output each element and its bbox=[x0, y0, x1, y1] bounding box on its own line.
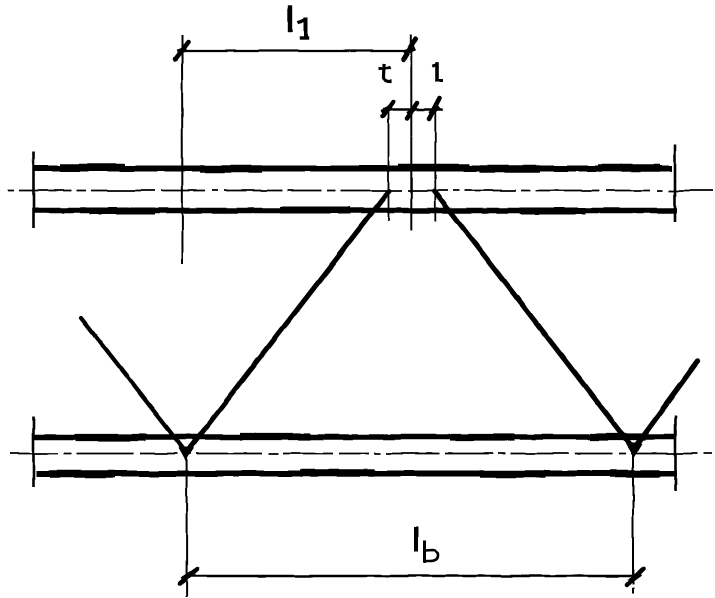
top chord right end tick bbox=[674, 144, 677, 222]
left outer diagonal member bbox=[81, 318, 186, 452]
t right extension line bbox=[434, 107, 436, 221]
t left arrowhead bbox=[382, 102, 393, 116]
top chord left end tick bbox=[32, 152, 35, 228]
left main diagonal member bbox=[187, 191, 389, 452]
dimension line lb bbox=[190, 575, 633, 577]
lb left arrowhead bbox=[180, 569, 197, 584]
extension line below left bottom joint bbox=[186, 455, 188, 597]
label t left bbox=[380, 65, 390, 82]
label l1 bbox=[290, 8, 307, 39]
top chord centerline bbox=[8, 190, 713, 192]
right outer diagonal member bbox=[634, 361, 699, 449]
lb right arrowhead bbox=[627, 569, 643, 585]
bottom left joint blob bbox=[181, 447, 192, 456]
t middle arrowhead bbox=[407, 103, 417, 118]
central extension line at x=411 bbox=[410, 34, 412, 230]
label lb bbox=[416, 529, 438, 561]
bottom chord bottom line bbox=[36, 473, 677, 474]
l1 right arrowhead bbox=[403, 38, 416, 60]
t right arrowhead bbox=[429, 98, 440, 119]
top chord top line bbox=[34, 168, 672, 170]
extension line below right bottom joint bbox=[632, 452, 634, 594]
bottom right joint blob bbox=[628, 443, 640, 453]
top chord bottom line bbox=[34, 210, 677, 211]
right main diagonal member bbox=[435, 191, 634, 449]
label t right bbox=[434, 64, 442, 80]
dimension line t (small) bbox=[383, 108, 443, 110]
dimension line l1 bbox=[179, 50, 410, 52]
bottom chord left end tick bbox=[32, 417, 35, 487]
l1 left arrowhead bbox=[175, 42, 188, 59]
bottom chord centerline bbox=[10, 453, 712, 455]
extension line at left of l1 bbox=[181, 35, 184, 264]
t left extension line bbox=[388, 107, 390, 221]
bottom chord top line bbox=[33, 437, 676, 438]
bottom chord right end tick bbox=[674, 416, 677, 491]
